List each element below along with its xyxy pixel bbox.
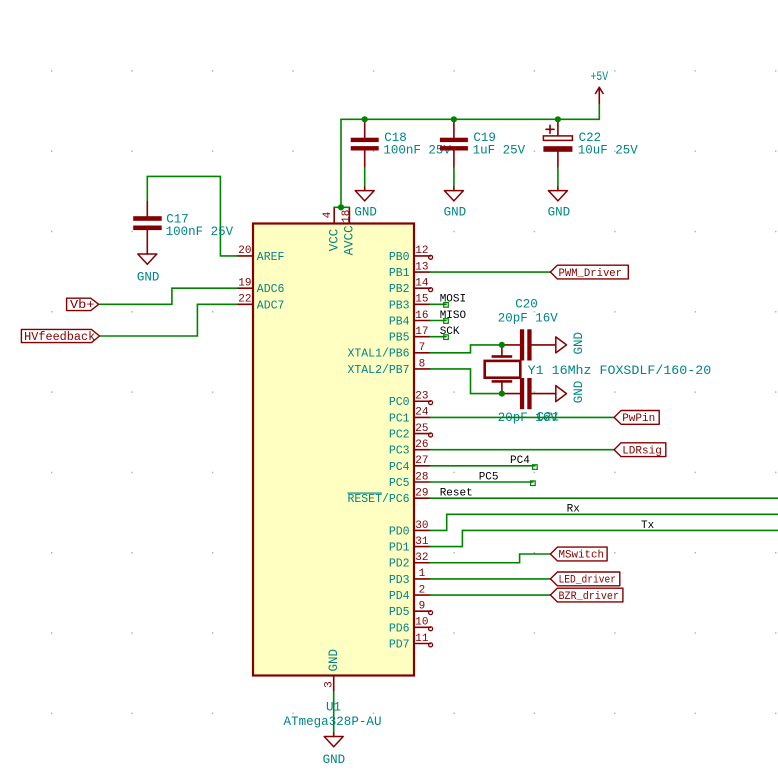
- pin 8 XTAL2/PB7: [347, 358, 430, 377]
- svg-text:C17: C17: [166, 212, 189, 226]
- pin 24 PC1: [389, 407, 430, 426]
- svg-text:24: 24: [415, 407, 429, 419]
- svg-text:4: 4: [322, 211, 334, 218]
- svg-text:11: 11: [415, 633, 429, 645]
- svg-text:ADC7: ADC7: [257, 299, 285, 312]
- hierarchical label BZR_driver: [550, 588, 623, 603]
- pin 1 PD3: [389, 568, 430, 587]
- svg-text:3: 3: [324, 681, 336, 688]
- pin 26 PC3: [389, 439, 430, 458]
- svg-text:PC3: PC3: [389, 445, 410, 458]
- node XTAL1 junction: [499, 342, 505, 348]
- svg-text:GND: GND: [327, 649, 341, 672]
- no-connect marker pin row 0: [429, 255, 433, 259]
- ground right of C20: [556, 332, 586, 355]
- wire +5V stem: [598, 104, 600, 120]
- svg-text:GND: GND: [354, 206, 377, 220]
- svg-text:10: 10: [415, 617, 428, 629]
- pin 29 RESET/PC6: [347, 487, 430, 506]
- hierarchical label LDRsig: [614, 443, 666, 458]
- svg-text:LDRsig: LDRsig: [622, 445, 662, 457]
- hierarchical label LED_driver: [550, 572, 619, 587]
- svg-text:12: 12: [415, 245, 428, 257]
- wire PD2 to MSwitch: [430, 554, 550, 563]
- capacitor C21: [498, 378, 559, 425]
- crystal Y1: [485, 345, 712, 394]
- pin 2 PD4: [389, 584, 430, 603]
- svg-text:30: 30: [415, 520, 428, 532]
- wire MOSI stub: [430, 303, 446, 305]
- svg-text:23: 23: [415, 391, 428, 403]
- wire VCC rail vertical to IC: [340, 119, 342, 207]
- global label HVfeedback: [21, 329, 99, 343]
- IC U1 body ATmega328P-AU: [253, 224, 414, 676]
- svg-text:PD3: PD3: [389, 574, 410, 587]
- svg-text:SCK: SCK: [440, 326, 460, 338]
- no-connect marker pin row 24: [429, 643, 433, 647]
- wire SCK stub: [430, 336, 446, 338]
- pin 22 ADC7: [237, 294, 285, 313]
- wire PD0 to Rx: [430, 514, 778, 530]
- wire IC GND pin down: [333, 692, 335, 733]
- wire VCC AVCC tie: [334, 206, 349, 208]
- hierarchical label PWM_Driver: [550, 265, 628, 280]
- pin 9 PD5: [389, 601, 430, 620]
- pin 19 ADC6: [237, 278, 285, 297]
- unconnected end square PC5: [531, 481, 536, 486]
- svg-text:ATmega328P-AU: ATmega328P-AU: [284, 715, 382, 729]
- node junction C19 top: [451, 116, 457, 122]
- wire Vb+ to ADC6: [99, 288, 237, 304]
- svg-text:Rx: Rx: [567, 504, 581, 516]
- svg-text:BZR_driver: BZR_driver: [559, 591, 620, 603]
- pin 7 XTAL1/PB6: [347, 342, 430, 361]
- ground below C19: [444, 187, 467, 220]
- svg-text:HVfeedback: HVfeedback: [24, 331, 95, 344]
- capacitor C22: [543, 119, 638, 167]
- capacitor C19: [440, 119, 526, 167]
- pin 31 PD1: [389, 536, 430, 555]
- wire PB1 to PWM_Driver: [430, 271, 550, 273]
- pin 20 AREF: [237, 245, 285, 264]
- svg-text:XTAL1/PB6: XTAL1/PB6: [347, 348, 409, 361]
- capacitor C20: [498, 298, 559, 361]
- svg-text:22: 22: [238, 294, 251, 306]
- svg-text:PD4: PD4: [389, 590, 410, 603]
- no-connect marker pin row 11: [429, 433, 433, 437]
- svg-text:19: 19: [238, 278, 251, 290]
- pin 11 PD7: [389, 633, 430, 652]
- svg-text:PD0: PD0: [389, 525, 410, 538]
- pin 3 GND: [324, 649, 341, 692]
- ground below C22: [548, 187, 571, 220]
- svg-text:PC4: PC4: [510, 455, 530, 467]
- svg-text:PC5: PC5: [479, 471, 499, 483]
- svg-text:PB2: PB2: [389, 283, 410, 296]
- svg-text:PD7: PD7: [389, 638, 410, 651]
- svg-text:29: 29: [415, 487, 428, 499]
- pin 27 PC4: [389, 455, 430, 474]
- wire HVfeedback to ADC7: [100, 304, 237, 336]
- ground below U1: [323, 733, 346, 767]
- pin 17 PB5: [389, 326, 430, 345]
- svg-text:PB0: PB0: [389, 251, 410, 264]
- pin 23 PC0: [389, 391, 430, 410]
- svg-text:PB4: PB4: [389, 315, 410, 328]
- svg-text:Vb+: Vb+: [70, 298, 95, 312]
- wire C22 to GND: [557, 168, 559, 188]
- svg-text:AREF: AREF: [257, 251, 285, 264]
- wire AREF to C17: [147, 176, 237, 256]
- svg-text:27: 27: [415, 455, 428, 467]
- pin 12 PB0: [389, 245, 430, 264]
- pin 18 AVCC: [341, 207, 357, 255]
- svg-text:31: 31: [415, 536, 429, 548]
- svg-text:20pF 16V: 20pF 16V: [498, 312, 559, 326]
- node XTAL2 junction: [499, 391, 505, 397]
- ground below C18: [354, 187, 377, 220]
- svg-text:C20: C20: [515, 298, 538, 312]
- svg-text:PB5: PB5: [389, 332, 410, 345]
- svg-text:PWM_Driver: PWM_Driver: [559, 268, 623, 280]
- svg-text:32: 32: [415, 552, 428, 564]
- unconnected end square MISO: [444, 319, 449, 324]
- svg-text:MSwitch: MSwitch: [559, 550, 605, 562]
- svg-text:18: 18: [341, 210, 353, 223]
- svg-text:13: 13: [415, 261, 428, 273]
- node junction C18 top: [362, 116, 368, 122]
- svg-text:GND: GND: [548, 206, 571, 220]
- svg-text:PD5: PD5: [389, 606, 410, 619]
- wire PC3 to LDRsig: [430, 449, 614, 451]
- svg-text:20: 20: [238, 245, 251, 257]
- no-connect marker pin row 9: [429, 401, 433, 405]
- svg-text:1: 1: [419, 568, 426, 580]
- wire XTAL2 to C21: [430, 369, 502, 394]
- svg-text:PwPin: PwPin: [622, 413, 655, 425]
- svg-text:28: 28: [415, 471, 428, 483]
- svg-text:ADC6: ADC6: [257, 283, 285, 296]
- svg-text:Tx: Tx: [641, 520, 655, 532]
- svg-text:2: 2: [419, 584, 426, 596]
- power symbol +5V: [591, 70, 609, 104]
- svg-text:25: 25: [415, 423, 428, 435]
- pin 30 PD0: [389, 520, 430, 539]
- svg-text:8: 8: [419, 358, 426, 370]
- wire C19 to GND: [453, 168, 455, 188]
- pin 4 VCC: [322, 207, 341, 251]
- svg-text:PD1: PD1: [389, 542, 410, 555]
- node junction C22 top: [555, 116, 561, 122]
- pin 25 PC2: [389, 423, 430, 442]
- svg-text:VCC: VCC: [327, 229, 341, 252]
- svg-text:1uF 25V: 1uF 25V: [473, 143, 526, 157]
- svg-text:AVCC: AVCC: [343, 225, 357, 255]
- capacitor C18: [351, 119, 452, 167]
- wire PC1 to PwPin: [430, 416, 614, 418]
- capacitor C17: [133, 202, 233, 254]
- svg-text:9: 9: [419, 601, 426, 613]
- svg-text:Y1 16Mhz FOXSDLF/160-20: Y1 16Mhz FOXSDLF/160-20: [528, 364, 712, 378]
- wire PD1 to Tx: [430, 530, 778, 546]
- svg-text:PC2: PC2: [389, 428, 410, 441]
- pin 14 PB2: [389, 278, 430, 297]
- wire PD4 to BZR_driver: [430, 594, 550, 596]
- wire PD3 to LED_driver: [430, 578, 550, 580]
- hierarchical label MSwitch: [550, 547, 607, 562]
- wire MISO stub: [430, 320, 446, 322]
- global label Vb+: [67, 298, 99, 312]
- no-connect marker pin row 23: [429, 627, 433, 631]
- svg-text:PC0: PC0: [389, 396, 410, 409]
- wire PC4: [430, 465, 535, 467]
- wire PC5: [430, 481, 533, 483]
- wire top power rail: [341, 118, 599, 120]
- svg-text:26: 26: [415, 439, 428, 451]
- wire C18 to GND: [364, 168, 366, 188]
- svg-text:RESET/PC6: RESET/PC6: [347, 493, 409, 506]
- no-connect marker pin row 22: [429, 611, 433, 615]
- hierarchical label PwPin: [614, 411, 659, 426]
- no-connect marker pin row 2: [429, 288, 433, 292]
- pin 10 PD6: [389, 617, 430, 636]
- svg-text:17: 17: [415, 326, 428, 338]
- svg-text:10uF 25V: 10uF 25V: [578, 143, 639, 157]
- ground below C17: [137, 254, 160, 284]
- unconnected end square MOSI: [444, 303, 449, 308]
- svg-text:14: 14: [415, 278, 429, 290]
- svg-text:U1: U1: [326, 701, 341, 715]
- unconnected end square PC4: [533, 465, 538, 470]
- svg-text:LED_driver: LED_driver: [559, 575, 617, 587]
- svg-text:XTAL2/PB7: XTAL2/PB7: [347, 364, 409, 377]
- pin 32 PD2: [389, 552, 430, 571]
- wire Reset: [430, 497, 778, 499]
- ground right of C21: [556, 381, 586, 404]
- pin 16 PB4: [389, 310, 430, 329]
- unconnected end square SCK: [444, 335, 449, 340]
- svg-text:GND: GND: [572, 381, 586, 404]
- svg-text:+5V: +5V: [591, 70, 609, 84]
- svg-text:GND: GND: [444, 206, 467, 220]
- node VCC junction: [338, 204, 344, 210]
- svg-text:PD6: PD6: [389, 622, 410, 635]
- svg-text:Reset: Reset: [440, 487, 473, 499]
- svg-text:7: 7: [419, 342, 426, 354]
- svg-text:PB3: PB3: [389, 299, 410, 312]
- pin 13 PB1: [389, 261, 430, 280]
- svg-text:GND: GND: [137, 270, 160, 284]
- svg-text:100nF 25V: 100nF 25V: [166, 225, 234, 239]
- svg-text:PC4: PC4: [389, 461, 410, 474]
- svg-text:GND: GND: [323, 753, 346, 767]
- svg-text:GND: GND: [572, 332, 586, 355]
- pin 15 PB3: [389, 294, 430, 313]
- svg-text:PB1: PB1: [389, 267, 410, 280]
- svg-text:16: 16: [415, 310, 428, 322]
- svg-text:15: 15: [415, 294, 428, 306]
- wire XTAL1 to C20: [430, 345, 502, 353]
- svg-text:PC1: PC1: [389, 412, 410, 425]
- svg-text:PD2: PD2: [389, 558, 410, 571]
- pin 28 PC5: [389, 471, 430, 490]
- svg-text:PC5: PC5: [389, 477, 410, 490]
